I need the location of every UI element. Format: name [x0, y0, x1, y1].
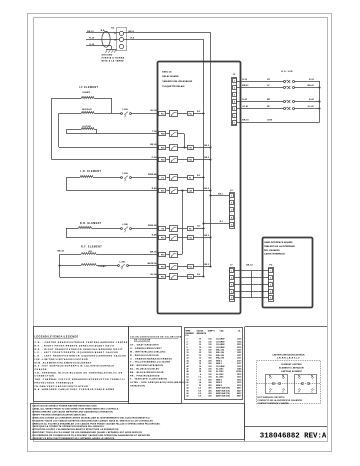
H.S. LIM. label	[281, 71, 293, 73]
svg-text:12: 12	[199, 350, 201, 352]
svg-text:5: 5	[234, 108, 235, 110]
svg-text:BL - BLUE/AZUL/BLEU: BL - BLUE/AZUL/BLEU	[130, 368, 160, 371]
svg-text:H1: H1	[298, 376, 300, 378]
wire row P24 output to P20 junction	[178, 134, 186, 149]
svg-text:IDENTIFIEZ TOUS LES FILS AVANT: IDENTIFIEZ TOUS LES FILS AVANT DE LES DE…	[32, 431, 143, 434]
svg-text:5: 5	[231, 297, 232, 299]
svg-text:4827: 4827	[237, 387, 241, 390]
svg-text:CONNECTION: CONNECTION	[35, 376, 55, 378]
R.R. limit switch	[121, 224, 158, 232]
svg-text:250: 250	[208, 385, 211, 387]
svg-text:C.R.,R.R.,L.R.,R.F.,L.F.: C.R.,R.R.,L.R.,R.F.,L.F.	[277, 358, 301, 360]
svg-text:R - RED/ROJO/ROUGE: R - RED/ROJO/ROUGE	[130, 355, 159, 357]
svg-text:5.5: 5.5	[198, 388, 201, 390]
svg-text:SRL/-100: SRL/-100	[216, 352, 224, 354]
svg-text:BK-2: BK-2	[204, 264, 209, 266]
svg-text:CU-GRAY: CU-GRAY	[216, 340, 225, 343]
svg-text:19: 19	[187, 352, 189, 354]
svg-text:GY/BK - DRK GRAY(BLACK)/GRIS(N: GY/BK - DRK GRAY(BLACK)/GRIS(NEGRO)/	[130, 381, 186, 384]
svg-text:W - WHITE/BLANCO/BLANC: W - WHITE/BLANCO/BLANC	[130, 351, 166, 354]
svg-text:150: 150	[208, 369, 211, 371]
svg-text:8: 8	[200, 374, 201, 376]
svg-text:F1: F1	[189, 177, 191, 179]
svg-text:C.R. - CENTER REAR/POSTERIOR C: C.R. - CENTER REAR/POSTERIOR CENTRAL/ARR…	[35, 341, 128, 344]
svg-text:2515: 2515	[237, 344, 241, 346]
svg-text:22: 22	[187, 355, 189, 357]
armored cable B.A.	[101, 29, 110, 47]
relay K1 row (P1)	[159, 175, 205, 181]
svg-text:O-34: O-34	[152, 156, 158, 159]
svg-text:H.S.-HOT SURFACE/SUPERFICIE CA: H.S.-HOT SURFACE/SUPERFICIE CALIENTE/SUR…	[35, 365, 115, 368]
svg-text:SRL/-100: SRL/-100	[216, 355, 224, 357]
svg-text:VERIFIEZ LE BON FONCTIONNEMENT: VERIFIEZ LE BON FONCTIONNEMENT DE L'APPA…	[32, 437, 115, 440]
svg-text:BR-34: BR-34	[58, 250, 65, 253]
svg-text:FN-FAN/VENTILADOR/VENTILATEUR: FN-FAN/VENTILADOR/VENTILATEUR	[35, 385, 89, 388]
svg-text:AWM I A/B (TS): AWM I A/B (TS)	[216, 387, 230, 390]
wire BL-34	[150, 109, 157, 112]
svg-text:MISE A LA TERRE: MISE A LA TERRE	[102, 60, 125, 63]
svg-text:16: 16	[199, 366, 201, 368]
svg-text:105: 105	[208, 377, 211, 379]
title block column	[245, 327, 328, 442]
svg-text:150: 150	[208, 355, 211, 357]
svg-text:5107: 5107	[237, 360, 241, 362]
svg-text:4: 4	[234, 100, 235, 103]
svg-text:P10: P10	[161, 114, 164, 116]
svg-text:T.B.: T.B.	[111, 27, 115, 29]
svg-text:F10: F10	[189, 113, 192, 115]
svg-text:5.5: 5.5	[198, 393, 201, 395]
harness BK-22 wires J7 to P3	[234, 265, 268, 298]
svg-text:BR-41: BR-41	[308, 84, 315, 87]
svg-text:R/BK-48: R/BK-48	[148, 173, 157, 176]
svg-text:3286: 3286	[237, 369, 241, 371]
svg-text:USER INTERFACE BOARD/: USER INTERFACE BOARD/	[264, 241, 293, 244]
svg-text:BK-2: BK-2	[204, 145, 209, 147]
svg-text:18: 18	[199, 369, 201, 371]
svg-text:56: 56	[187, 382, 189, 384]
svg-text:B.A.-ARMORED CABLE/TUBO FLEXIB: B.A.-ARMORED CABLE/TUBO FLEXIBLE/CABLE A…	[35, 388, 115, 391]
svg-text:F13: F13	[189, 266, 192, 268]
wire R/BK-48 (RR)	[148, 224, 157, 227]
svg-text:4827: 4827	[237, 392, 241, 395]
svg-text:105: 105	[208, 339, 211, 341]
svg-text:AWG/MCM: AWG/MCM	[197, 332, 207, 335]
svg-text:BK-22: BK-22	[246, 265, 253, 267]
svg-text:PR - PINK/ROSA/ROSE: PR - PINK/ROSA/ROSE	[130, 374, 160, 377]
svg-text:R-32: R-32	[309, 79, 315, 81]
svg-text:R-42: R-42	[242, 98, 248, 101]
L.R. limit switch	[121, 173, 158, 181]
svg-text:1: 1	[234, 80, 235, 82]
svg-text:R.R. - RIGHT REAR/POSTERIOR DE: R.R. - RIGHT REAR/POSTERIOR DERECHO/ARRI…	[35, 348, 124, 351]
svg-text:F20: F20	[189, 147, 192, 149]
svg-text:32: 32	[187, 358, 189, 360]
COM wire BR-19	[237, 120, 320, 123]
svg-text:16: 16	[199, 363, 201, 365]
svg-text:TABLERO DEL RELEVADOR: TABLERO DEL RELEVADOR	[162, 80, 192, 83]
svg-text:H2: H2	[311, 376, 313, 378]
svg-text:R-48: R-48	[152, 187, 158, 190]
svg-text:INNER: INNER	[82, 92, 90, 94]
svg-text:PROTECTEUR THERMIQUE: PROTECTEUR THERMIQUE	[35, 382, 74, 384]
svg-text:GY-41: GY-41	[308, 105, 315, 108]
svg-text:ARMELOS AL VOLVER A ENSAMBLAR: ARMELOS AL VOLVER A ENSAMBLAR LOS CABLES…	[32, 422, 160, 425]
color code box	[129, 327, 187, 404]
svg-text:48: 48	[187, 370, 189, 373]
svg-text:CU-GRAY: CU-GRAY	[216, 343, 225, 346]
legend box	[34, 327, 129, 402]
svg-text:4827: 4827	[237, 395, 241, 398]
svg-text:1015: 1015	[237, 341, 241, 343]
connector J2	[232, 74, 237, 125]
terminal block T.B.	[111, 27, 127, 50]
svg-text:RR: RR	[267, 99, 271, 101]
svg-text:AWM I A/B (TS): AWM I A/B (TS)	[216, 389, 230, 392]
wire gauge table	[185, 328, 243, 400]
wire T-34	[152, 130, 157, 133]
svg-text:MIDDLE: MIDDLE	[82, 109, 92, 111]
relay K24 row (P24)	[159, 131, 178, 137]
svg-text:GRIS(NOIR): GRIS(NOIR)	[130, 386, 145, 388]
svg-text:4827: 4827	[237, 389, 241, 392]
svg-text:7.5: 7.5	[198, 379, 201, 381]
svg-text:SL-1283: SL-1283	[216, 377, 223, 379]
svg-text:SL-1283: SL-1283	[216, 371, 223, 373]
svg-text:BK-2: BK-2	[204, 157, 209, 159]
svg-text:105: 105	[208, 374, 211, 376]
svg-text:F22: F22	[189, 159, 192, 161]
svg-text:P22: P22	[161, 160, 164, 162]
svg-text:LIMITER/LIMITADOR/LIMITEUR: LIMITER/LIMITADOR/LIMITEUR	[272, 354, 305, 357]
relay K20 row (P20)	[159, 145, 212, 151]
svg-text:GY - GRAY/GRIS/GRIS: GY - GRAY/GRIS/GRIS	[130, 344, 159, 347]
svg-text:CHAUDE: CHAUDE	[35, 368, 47, 371]
svg-text:BK-34: BK-34	[150, 143, 157, 146]
svg-text:F.G.: F.G.	[186, 335, 190, 337]
svg-text:2515: 2515	[237, 382, 241, 384]
svg-text:O - ORANGE/NARANJA/ORANGE: O - ORANGE/NARANJA/ORANGE	[130, 357, 173, 360]
svg-text:150: 150	[208, 352, 211, 354]
part number 318046882 REV:A	[245, 427, 327, 441]
svg-text:T - TAN/CAFE CLARO/BEIGE: T - TAN/CAFE CLARO/BEIGE	[130, 378, 167, 381]
wire ground G-10	[86, 44, 112, 50]
svg-text:R/BK-48: R/BK-48	[148, 224, 157, 227]
svg-text:2: 2	[234, 87, 235, 89]
svg-text:2: 2	[187, 341, 188, 343]
svg-text:5.5: 5.5	[198, 390, 201, 392]
svg-text:SEW-1: SEW-1	[216, 360, 222, 362]
hot surface indicator figure	[257, 354, 321, 406]
relay K23 row (P23)	[159, 188, 212, 194]
notes box (caution text)	[31, 404, 245, 441]
svg-text:R-10: R-10	[89, 37, 95, 39]
svg-text:H2: H2	[282, 376, 284, 378]
svg-text:250: 250	[208, 396, 211, 398]
svg-text:L1: L1	[114, 33, 116, 35]
svg-text:3: 3	[270, 284, 271, 286]
svg-text:L.SW.: L.SW.	[122, 224, 128, 226]
svg-text:ESEC 20: ESEC 20	[162, 71, 172, 73]
user interface board U2	[263, 238, 313, 308]
svg-text:1015: 1015	[237, 339, 241, 341]
svg-text:P15: P15	[161, 277, 164, 279]
svg-text:2: 2	[231, 202, 232, 204]
svg-text:1: 1	[231, 270, 232, 272]
svg-text:LR: LR	[267, 79, 270, 81]
svg-text:P13: P13	[161, 267, 164, 269]
svg-text:H1: H1	[269, 376, 271, 378]
svg-text:CARTE INTERFACE: CARTE INTERFACE	[264, 253, 285, 256]
svg-text:P16: P16	[161, 238, 164, 240]
svg-text:150: 150	[208, 371, 211, 373]
svg-text:PUESTA A TIERRA: PUESTA A TIERRA	[102, 57, 125, 60]
ground symbol	[102, 50, 125, 63]
svg-text:18: 18	[199, 371, 201, 373]
svg-text:3: 3	[231, 284, 232, 286]
svg-text:P18: P18	[161, 255, 164, 257]
svg-text:P20: P20	[161, 148, 164, 150]
wire R-48 (RR)	[152, 234, 158, 237]
svg-text:G - GREEN/VERDE/VERT: G - GREEN/VERDE/VERT	[130, 348, 162, 350]
svg-text:105: 105	[208, 366, 211, 368]
svg-text:7.5: 7.5	[198, 377, 201, 379]
svg-text:2: 2	[231, 277, 232, 279]
svg-text:LIM.-LIMITER/LIMITADOR/LIMITEU: LIM.-LIMITER/LIMITADOR/LIMITEUR	[35, 358, 89, 361]
svg-text:ATTENTION:COUPEZ L'ALIMENTATIO: ATTENTION:COUPEZ L'ALIMENTATION AVANT D'…	[32, 428, 119, 431]
svg-text:60: 60	[187, 393, 189, 395]
LF element	[52, 87, 158, 160]
svg-text:ATENCION:CORTAR LA CORRIENTE A: ATENCION:CORTAR LA CORRIENTE ANTES DE RE…	[32, 416, 150, 419]
svg-text:3321: 3321	[237, 358, 241, 360]
wire O-34	[152, 156, 158, 159]
svg-text:6: 6	[234, 115, 235, 117]
svg-text:62: 62	[187, 396, 189, 398]
wire BK/W-34	[148, 262, 158, 265]
svg-text:BK-10: BK-10	[87, 31, 94, 33]
svg-text:200: 200	[208, 360, 211, 362]
svg-text:ELM.-ELEMENTS/ELEMENTO/ELEMENT: ELM.-ELEMENTS/ELEMENTO/ELEMENT	[35, 362, 92, 364]
svg-text:1: 1	[187, 339, 188, 341]
connector P3	[269, 265, 274, 302]
svg-text:3321: 3321	[237, 350, 241, 352]
wire R/BK-48 (LR)	[148, 173, 157, 176]
svg-text:R-32: R-32	[242, 79, 248, 81]
svg-text:P1: P1	[162, 178, 164, 180]
svg-text:2515: 2515	[237, 347, 241, 349]
svg-text:12: 12	[199, 355, 201, 357]
svg-text:4: 4	[270, 290, 271, 293]
svg-text:5: 5	[231, 224, 232, 226]
svg-text:47: 47	[187, 368, 189, 371]
svg-text:BK-2: BK-2	[204, 235, 209, 237]
svg-text:C20: C20	[189, 190, 192, 192]
svg-text:58: 58	[187, 388, 189, 390]
svg-text:SEW-2: SEW-2	[216, 379, 222, 381]
svg-text:THR.-THERMAL CIRCUIT BREAKER/I: THR.-THERMAL CIRCUIT BREAKER/INTERRUPTOR…	[35, 378, 126, 381]
svg-text:DE COULEUR: DE COULEUR	[134, 340, 151, 342]
svg-text:3321: 3321	[237, 352, 241, 354]
wire R-1	[202, 221, 229, 225]
svg-text:150: 150	[208, 350, 211, 352]
svg-text:12: 12	[199, 352, 201, 354]
svg-text:R.F. - RIGHT FRONT/FRENTE DERE: R.F. - RIGHT FRONT/FRENTE DERECHO/AVANT …	[35, 345, 116, 348]
svg-text:59: 59	[187, 390, 189, 392]
svg-text:T.B.-TERMINAL BLOCK/BLOQUE DE: T.B.-TERMINAL BLOCK/BLOQUE DE TERMINALES…	[35, 371, 123, 374]
svg-text:L2: L2	[114, 39, 116, 41]
L.R. element	[67, 171, 158, 191]
svg-text:LF ELEMENT: LF ELEMENT	[79, 87, 98, 89]
relay K13 row (P13)	[159, 264, 212, 270]
svg-text:150: 150	[208, 358, 211, 360]
svg-text:GY-41: GY-41	[242, 105, 249, 108]
wire BK-34	[150, 143, 157, 146]
H.S. common bus	[319, 81, 321, 122]
svg-text:5.5: 5.5	[198, 396, 201, 398]
svg-text:3: 3	[231, 209, 232, 211]
label R-2 (row P4 feed)	[197, 226, 200, 228]
svg-text:41: 41	[187, 362, 189, 365]
svg-text:57: 57	[187, 385, 189, 387]
svg-text:3321: 3321	[237, 355, 241, 357]
relay K18 row (P18)	[159, 252, 178, 258]
svg-text:CAUTION:DISCONNECT POWER BEFOR: CAUTION:DISCONNECT POWER BEFORE SERVICIN…	[32, 405, 97, 408]
wire R-48 (LR)	[152, 187, 158, 190]
wire BK-1	[209, 194, 229, 197]
svg-text:10: 10	[199, 339, 201, 341]
svg-text:L.R. ELEMENT: L.R. ELEMENT	[80, 171, 101, 173]
svg-text:5: 5	[270, 297, 271, 299]
limit switch RR	[237, 98, 321, 103]
svg-text:105: 105	[208, 341, 211, 343]
R.F. limit switch	[118, 261, 158, 269]
svg-text:L.F. - LEFT FRONT/FRENTE IZQUI: L.F. - LEFT FRONT/FRENTE IZQUIERDO/AVANT…	[35, 351, 119, 354]
svg-text:DEL USUARIO/: DEL USUARIO/	[264, 249, 280, 252]
svg-text:L.SW.: L.SW.	[122, 109, 128, 111]
svg-text:250: 250	[208, 390, 211, 392]
svg-text:R-1: R-1	[220, 221, 223, 223]
svg-text:3: 3	[234, 94, 235, 96]
svg-text:10: 10	[199, 341, 201, 343]
svg-text:BK-2: BK-2	[204, 188, 209, 190]
svg-text:F4: F4	[189, 227, 191, 230]
svg-text:10788: 10788	[236, 371, 241, 373]
svg-text:25: 25	[199, 385, 201, 387]
svg-text:R-2: R-2	[197, 175, 200, 177]
wire L1 BK-10	[86, 31, 119, 33]
limit switch LF	[237, 84, 321, 89]
svg-text:CU-GRAY: CU-GRAY	[216, 365, 225, 368]
svg-text:BK-4: BK-4	[129, 30, 135, 33]
svg-text:CONTACTO DE LA SUPERFICIE CALI: CONTACTO DE LA SUPERFICIE CALIENTE/	[258, 399, 303, 402]
svg-text:SRL/-100: SRL/-100	[216, 350, 224, 352]
wire row P18 output to P23 junction	[178, 189, 184, 254]
svg-text:2515: 2515	[237, 374, 241, 376]
relay K22 row (P22)	[159, 157, 212, 163]
svg-text:H.S. LIM.: H.S. LIM.	[281, 71, 293, 73]
svg-text:BR - BROWN/CAFE/BRUN: BR - BROWN/CAFE/BRUN	[130, 364, 163, 367]
svg-text:BR-19: BR-19	[242, 120, 249, 122]
svg-text:BR-34: BR-34	[150, 250, 157, 253]
svg-text:R-48: R-48	[152, 234, 158, 237]
svg-text:R-2: R-2	[197, 226, 200, 228]
svg-text:PLAQUETTE RELAIS: PLAQUETTE RELAIS	[162, 85, 185, 88]
svg-text:R-2: R-2	[197, 111, 200, 113]
svg-text:F16: F16	[189, 237, 192, 239]
svg-text:1: 1	[231, 195, 232, 197]
svg-text:R-42: R-42	[309, 98, 315, 101]
svg-text:250: 250	[208, 393, 211, 395]
svg-text:BR-41: BR-41	[242, 84, 249, 87]
svg-text:10: 10	[187, 350, 189, 352]
svg-text:LES ERREURS DE CONNEXION DE FI: LES ERREURS DE CONNEXION DE FILS PEUVENT…	[32, 434, 151, 437]
R.F. element	[58, 247, 158, 278]
svg-text:12: 12	[199, 358, 201, 360]
svg-text:TEMP.°C: TEMP.°C	[208, 330, 216, 332]
svg-text:R.F. ELEMENT: R.F. ELEMENT	[81, 247, 102, 249]
wire L2 R-10	[86, 37, 119, 39]
svg-text:RELAY BOARD:: RELAY BOARD:	[162, 75, 179, 78]
wire BK-4 (L1 rail feed)	[124, 30, 211, 267]
svg-text:COM: COM	[267, 120, 272, 122]
relay K10 row (P10)	[159, 111, 205, 117]
svg-text:LIMITEUR ELEMENT: LIMITEUR ELEMENT	[281, 371, 303, 373]
wire R-4 (L2 rail feed)	[124, 36, 204, 276]
svg-text:AWM I A/B (TS): AWM I A/B (TS)	[216, 395, 230, 398]
svg-text:SL-1283: SL-1283	[216, 374, 223, 376]
svg-text:ETIQUETE TODOS LOS CABLES ANTE: ETIQUETE TODOS LOS CABLES ANTES DE DESCO…	[32, 419, 153, 422]
svg-text:G-10: G-10	[89, 44, 95, 46]
svg-text:1: 1	[270, 270, 271, 272]
svg-text:WIRING ERRORS CAN CAUSE IMPROP: WIRING ERRORS CAN CAUSE IMPROPER AND DAN…	[32, 411, 113, 414]
svg-text:BL-34: BL-34	[150, 109, 157, 112]
svg-text:SRL/-100: SRL/-100	[216, 358, 224, 360]
svg-text:5: 5	[187, 347, 188, 349]
svg-text:L.SW.: L.SW.	[122, 173, 128, 175]
svg-text:42: 42	[187, 365, 189, 368]
svg-text:BK-1: BK-1	[218, 194, 223, 196]
svg-text:200: 200	[208, 363, 211, 365]
wire BL-34 (RF common)	[150, 273, 157, 276]
svg-text:105: 105	[208, 344, 211, 346]
svg-text:HOT SURFACE CIRCUITS/: HOT SURFACE CIRCUITS/	[258, 396, 285, 399]
svg-text:P23: P23	[161, 191, 164, 193]
connector J7	[230, 265, 235, 302]
svg-text:5107: 5107	[237, 363, 241, 365]
relay board U1 (ESEC 20)	[158, 62, 241, 314]
svg-text:L.SW.: L.SW.	[120, 261, 126, 263]
svg-text:105: 105	[208, 347, 211, 349]
svg-text:TURBO: TURBO	[98, 266, 106, 268]
svg-text:SEW-2: SEW-2	[216, 382, 222, 384]
svg-text:LEGEND/LEYENDA/LEGENDE: LEGEND/LEYENDA/LEGENDE	[35, 335, 79, 338]
svg-text:R-2: R-2	[197, 274, 200, 276]
LF limit switch	[121, 109, 158, 117]
svg-text:R.R. ELEMENT: R.R. ELEMENT	[80, 223, 102, 225]
limit switch RF	[237, 105, 321, 110]
svg-text:F15: F15	[189, 276, 192, 278]
svg-text:TABLERO DE LA INTERFASE: TABLERO DE LA INTERFASE	[264, 245, 295, 248]
connector J3	[230, 190, 235, 229]
wire BR-34	[150, 250, 157, 253]
svg-text:200: 200	[208, 379, 211, 381]
svg-text:2: 2	[270, 277, 271, 279]
relay K16 row (P16)	[159, 235, 212, 241]
svg-text:LABEL ALL WIRES PRIOR TO DISCO: LABEL ALL WIRES PRIOR TO DISCONNECTION W…	[32, 408, 119, 411]
svg-text:2515: 2515	[237, 377, 241, 379]
svg-text:1015: 1015	[237, 366, 241, 368]
svg-text:VERIFIQUE LA CORRECTA OPERACIO: VERIFIQUE LA CORRECTA OPERACION DESPUES …	[32, 425, 105, 428]
